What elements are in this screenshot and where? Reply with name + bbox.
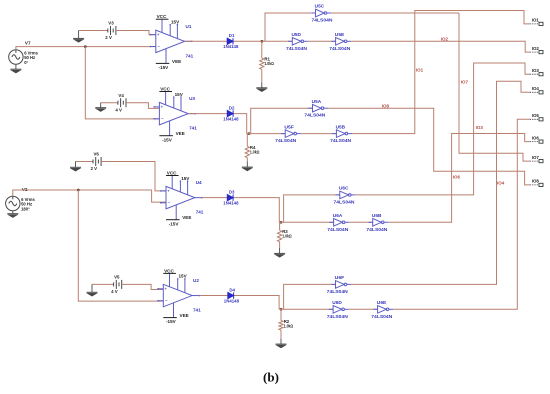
diode D1 1N4148 <box>227 38 233 44</box>
node B junction (U3 out) <box>248 132 251 135</box>
svg-text:VEE: VEE <box>180 313 189 318</box>
svg-text:VCC: VCC <box>167 170 177 175</box>
svg-text:74LS04N: 74LS04N <box>329 46 351 51</box>
wire U6E output to IO5 route <box>393 119 530 309</box>
op-amp U3 <box>154 92 195 136</box>
source V7 <box>9 50 23 64</box>
svg-text:D2: D2 <box>229 105 235 110</box>
inverter U6D 74LS04N <box>329 306 349 314</box>
svg-text:IO1: IO1 <box>532 18 540 23</box>
svg-text:-15V: -15V <box>169 221 180 226</box>
diode D2 1N4148 <box>227 110 233 116</box>
wire node C to U6A <box>279 221 333 223</box>
svg-text:741: 741 <box>193 308 201 313</box>
svg-text:(b): (b) <box>263 370 279 385</box>
svg-text:1N4148: 1N4148 <box>223 116 239 121</box>
connector IO1 <box>530 23 539 25</box>
svg-text:U6F: U6F <box>335 275 345 280</box>
wire U2 output through D4 to bend <box>199 296 279 310</box>
svg-text:VCC: VCC <box>157 14 167 19</box>
svg-text:U6A: U6A <box>333 213 343 218</box>
svg-text:0°: 0° <box>24 60 28 65</box>
op-amp U4 <box>161 176 202 220</box>
svg-text:1.0kΩ: 1.0kΩ <box>284 324 294 329</box>
source V2 <box>6 196 20 210</box>
svg-text:-15V: -15V <box>162 137 173 142</box>
svg-text:IO3: IO3 <box>476 125 484 130</box>
svg-text:2 V: 2 V <box>105 35 112 40</box>
svg-text:741: 741 <box>186 53 194 58</box>
svg-text:4 V: 4 V <box>111 289 118 294</box>
wire V6 ground to battery <box>76 161 94 163</box>
svg-text:74LS04N: 74LS04N <box>334 199 356 204</box>
svg-text:D3: D3 <box>229 189 235 194</box>
battery V3 <box>108 26 116 35</box>
wire U6C output to IO3 route <box>355 63 529 195</box>
wire V2 to U4 - input (step) <box>13 190 166 202</box>
svg-text:4 V: 4 V <box>115 107 122 112</box>
svg-text:IO7: IO7 <box>532 155 540 160</box>
svg-text:74LS04N: 74LS04N <box>327 314 349 319</box>
inverter U6E 74LS04N <box>373 306 393 314</box>
svg-text:VCC: VCC <box>164 268 174 273</box>
svg-text:IO5: IO5 <box>532 113 540 118</box>
wire U1 output to D1 to node A <box>185 40 262 42</box>
inverter U5B 74LS04N <box>332 130 352 138</box>
ground (V4) <box>95 103 106 112</box>
wire V5 to U2 + input (step) <box>122 284 164 289</box>
svg-text:15V: 15V <box>179 274 188 279</box>
svg-text:15V: 15V <box>181 176 190 181</box>
svg-text:180°: 180° <box>21 206 30 211</box>
svg-text:IO6: IO6 <box>532 135 540 140</box>
wire node C up to U6C branch <box>284 195 340 222</box>
wire node B up to U5A branch <box>251 108 313 133</box>
svg-text:U5E: U5E <box>335 32 345 37</box>
wire V7 to U1 - input <box>16 47 156 50</box>
node D junction (U2 out) <box>280 308 283 311</box>
svg-text:74LS04N: 74LS04N <box>366 227 388 232</box>
svg-text:U6C: U6C <box>339 186 349 191</box>
ground (V3) <box>73 31 84 43</box>
wire node D to U6D <box>279 308 333 310</box>
wire R3 to ground <box>279 222 281 230</box>
ground (R4) <box>242 162 253 171</box>
wire node A to U5D <box>262 40 292 42</box>
svg-text:IO6: IO6 <box>453 174 461 179</box>
ground (R3) <box>274 248 285 257</box>
inverter U6F 74LS04N <box>331 281 351 289</box>
inverter U5D 74LS04N <box>288 38 308 46</box>
wire U6F output to IO4 route <box>351 81 530 284</box>
resistor R4 1.0kΩ <box>245 146 249 157</box>
svg-text:IO3: IO3 <box>532 68 540 73</box>
svg-text:74LS04N: 74LS04N <box>286 46 308 51</box>
svg-text:−: − <box>168 200 171 205</box>
inverter U5F 74LS04N <box>281 130 301 138</box>
battery V4 <box>118 98 126 107</box>
connector IO6 <box>530 141 539 143</box>
svg-text:IO4: IO4 <box>532 86 540 91</box>
svg-text:741: 741 <box>196 210 204 215</box>
inverter U5E 74LS04N <box>331 38 351 46</box>
svg-text:74LS04N: 74LS04N <box>304 113 326 118</box>
connector IO4 <box>530 91 539 93</box>
svg-text:IO1: IO1 <box>416 68 424 73</box>
svg-text:U6D: U6D <box>332 300 342 305</box>
wire node A up to top branch <box>265 13 311 41</box>
resistor R1 1.0kΩ <box>260 58 264 69</box>
resistor R3 1.0kΩ <box>278 230 282 241</box>
svg-text:−: − <box>165 298 168 303</box>
wire node D up to U6F branch <box>284 284 336 309</box>
svg-text:15V: 15V <box>175 92 184 97</box>
wire R1 to ground <box>261 41 263 58</box>
svg-text:IO8: IO8 <box>532 179 540 184</box>
node V2 bus junction <box>77 189 80 192</box>
node A junction (U1 out) <box>261 40 264 43</box>
inverter U6A 74LS04N <box>329 219 349 227</box>
wire V5 ground to battery <box>92 283 114 285</box>
svg-text:VEE: VEE <box>172 59 181 64</box>
svg-text:U5B: U5B <box>336 124 346 129</box>
svg-text:VCC: VCC <box>160 86 170 91</box>
node V7 bus junction <box>84 45 87 48</box>
node C junction (U4 out) <box>280 221 283 224</box>
wire V4 ground to battery <box>101 102 118 104</box>
svg-text:74LS04N: 74LS04N <box>371 314 393 319</box>
svg-text:D4: D4 <box>229 287 235 292</box>
wire U5F to U5B <box>301 133 337 135</box>
svg-text:D1: D1 <box>229 33 235 38</box>
svg-text:U4: U4 <box>196 180 202 185</box>
svg-text:VEE: VEE <box>176 131 185 136</box>
inverter U6B 74LS04N <box>368 219 388 227</box>
diode D3 1N4148 <box>227 194 233 200</box>
diode D4 1N4148 <box>228 292 234 298</box>
svg-text:1.0kΩ: 1.0kΩ <box>250 150 260 155</box>
svg-text:15V: 15V <box>171 20 180 25</box>
svg-text:IO2: IO2 <box>532 46 540 51</box>
svg-text:1N4148: 1N4148 <box>224 298 240 303</box>
svg-text:74LS04N: 74LS04N <box>327 227 349 232</box>
svg-text:V7: V7 <box>25 41 31 46</box>
svg-text:-15V: -15V <box>166 319 177 324</box>
svg-text:IO8: IO8 <box>382 104 390 109</box>
svg-text:V6: V6 <box>94 152 100 157</box>
ground (R2) <box>276 339 287 348</box>
svg-text:1.0kΩ: 1.0kΩ <box>282 234 292 239</box>
battery V6 <box>93 157 101 166</box>
svg-text:U6B: U6B <box>372 213 382 218</box>
svg-text:1.0kΩ: 1.0kΩ <box>264 61 274 66</box>
svg-text:U5C: U5C <box>315 4 325 9</box>
wire U5D to U5E <box>308 40 336 42</box>
svg-text:VEE: VEE <box>182 215 191 220</box>
svg-text:−: − <box>161 116 164 121</box>
svg-text:−: − <box>157 44 160 49</box>
connector IO5 <box>530 118 539 120</box>
battery V5 <box>114 280 122 289</box>
wire U5B output to IO1 route <box>352 11 530 134</box>
wire U3 output through D2 to bend <box>188 114 247 134</box>
svg-text:U6E: U6E <box>377 300 387 305</box>
svg-text:IO2: IO2 <box>441 36 449 41</box>
connector IO7 <box>530 160 539 162</box>
op-amp U2 <box>158 273 199 317</box>
wire U4 output through D3 to bend <box>202 198 279 223</box>
wire R4 to ground <box>246 134 248 147</box>
wire U6A to U6B <box>349 221 373 223</box>
connector IO2 <box>530 51 539 53</box>
wire IO7 vertical and to pad <box>459 13 530 161</box>
svg-text:2 V: 2 V <box>91 166 98 171</box>
inverter U6C 74LS04N <box>336 191 356 199</box>
svg-text:1N4148: 1N4148 <box>223 200 239 205</box>
svg-text:U1: U1 <box>186 24 192 29</box>
svg-text:V5: V5 <box>114 275 120 280</box>
resistor R2 1.0kΩ <box>279 321 283 331</box>
wire U5C output to IO7 vertical <box>331 12 459 14</box>
svg-text:U3: U3 <box>189 96 195 101</box>
inverter U5C 74LS04N <box>311 9 331 17</box>
op-amp U1 <box>151 19 192 63</box>
ground (V5) <box>87 284 98 296</box>
ground (V6) <box>70 162 81 171</box>
connector IO8 <box>530 184 539 186</box>
svg-text:U5D: U5D <box>292 32 302 37</box>
wire V7 bus to U3 - input <box>85 47 159 119</box>
wire V4 to U3 + input (step) <box>126 103 160 109</box>
wire V2 bus to U2 - input <box>78 190 163 301</box>
inverter U5A 74LS04N <box>308 104 328 112</box>
ground (R1) <box>256 82 267 91</box>
svg-text:V4: V4 <box>118 93 124 98</box>
svg-text:U2: U2 <box>193 278 199 283</box>
wire U5E output to IO2 pad <box>351 41 530 52</box>
svg-text:74LS04N: 74LS04N <box>312 18 334 23</box>
svg-text:74LS04N: 74LS04N <box>330 138 352 143</box>
svg-text:74LS04N: 74LS04N <box>327 289 349 294</box>
wire V3 ground to battery <box>79 30 108 32</box>
wire R2 to ground <box>280 309 282 320</box>
svg-text:74LS04N: 74LS04N <box>275 138 297 143</box>
svg-text:IO7: IO7 <box>461 79 469 84</box>
svg-text:U5F: U5F <box>284 124 294 129</box>
svg-text:-15V: -15V <box>159 65 170 70</box>
svg-text:V3: V3 <box>108 21 114 26</box>
wire U6B output to IO6 route <box>388 134 530 223</box>
ground (V7) <box>10 64 21 73</box>
svg-text:1N4148: 1N4148 <box>223 44 239 49</box>
wire V3 to U1 + input (step) <box>116 31 156 35</box>
wire U6D to U6E <box>349 308 378 310</box>
wire V6 to U4 + input (step) <box>101 162 166 191</box>
connector IO3 <box>530 73 539 75</box>
ground (V2) <box>7 211 18 218</box>
svg-text:U5A: U5A <box>312 99 322 104</box>
wire node B to U5F <box>247 133 286 135</box>
svg-text:IO4: IO4 <box>497 180 505 185</box>
wire U5A output to IO8 route <box>328 108 530 185</box>
svg-text:741: 741 <box>189 126 197 131</box>
